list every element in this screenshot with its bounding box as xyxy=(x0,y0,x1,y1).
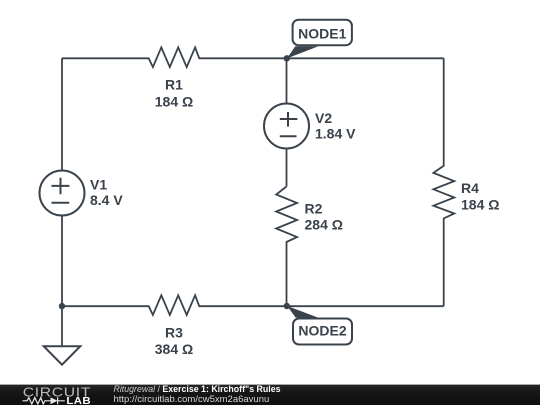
svg-text:NODE1: NODE1 xyxy=(298,25,346,41)
svg-text:V1: V1 xyxy=(90,176,107,192)
svg-text:NODE2: NODE2 xyxy=(298,322,346,338)
svg-text:Ritugrewal / Exercise 1: Kirch: Ritugrewal / Exercise 1: Kirchoff"s Rule… xyxy=(114,384,281,394)
svg-text:184 Ω: 184 Ω xyxy=(155,93,193,109)
svg-text:R1: R1 xyxy=(165,77,183,93)
svg-text:http://circuitlab.com/cw5xm2a6: http://circuitlab.com/cw5xm2a6avunu xyxy=(114,394,270,405)
svg-text:R4: R4 xyxy=(461,180,479,196)
svg-text:V2: V2 xyxy=(315,110,332,126)
svg-text:LAB: LAB xyxy=(66,396,91,405)
svg-text:384 Ω: 384 Ω xyxy=(155,341,193,357)
svg-text:R2: R2 xyxy=(305,200,323,216)
svg-text:R3: R3 xyxy=(165,324,183,340)
svg-text:1.84 V: 1.84 V xyxy=(315,125,356,141)
svg-text:284 Ω: 284 Ω xyxy=(305,217,343,233)
svg-text:8.4 V: 8.4 V xyxy=(90,192,123,208)
svg-text:184 Ω: 184 Ω xyxy=(461,196,499,212)
